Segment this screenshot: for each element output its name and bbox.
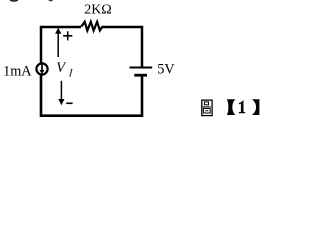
svg-text:2KΩ: 2KΩ [84, 2, 112, 17]
caption bracket 【 [227, 99, 235, 115]
resistor R1 [81, 22, 102, 31]
caption character 圖 [202, 100, 212, 116]
battery V1 top plate [130, 67, 153, 69]
current source I1 [36, 63, 47, 74]
wire: top wire left segment + left wire upper [41, 27, 81, 63]
stray ink mark (cropped text) [49, 0, 53, 1]
plus sign [63, 31, 72, 40]
polarity arrow down [58, 81, 64, 105]
caption digit 1 [239, 100, 245, 113]
wire: right wire lower + bottom wire + left wire lower [41, 75, 142, 115]
polarity arrow up [55, 28, 61, 57]
label V_I [56, 60, 72, 76]
wire: top wire right segment + right wire upper [102, 27, 142, 67]
caption bracket 】 [252, 99, 260, 115]
svg-text:1mA: 1mA [3, 64, 32, 80]
svg-text:V: V [56, 60, 67, 76]
stray ink mark (cropped text) top-left [10, 0, 18, 2]
svg-text:5V: 5V [157, 61, 175, 77]
battery V1 bottom plate [134, 74, 147, 77]
minus sign [66, 102, 72, 104]
